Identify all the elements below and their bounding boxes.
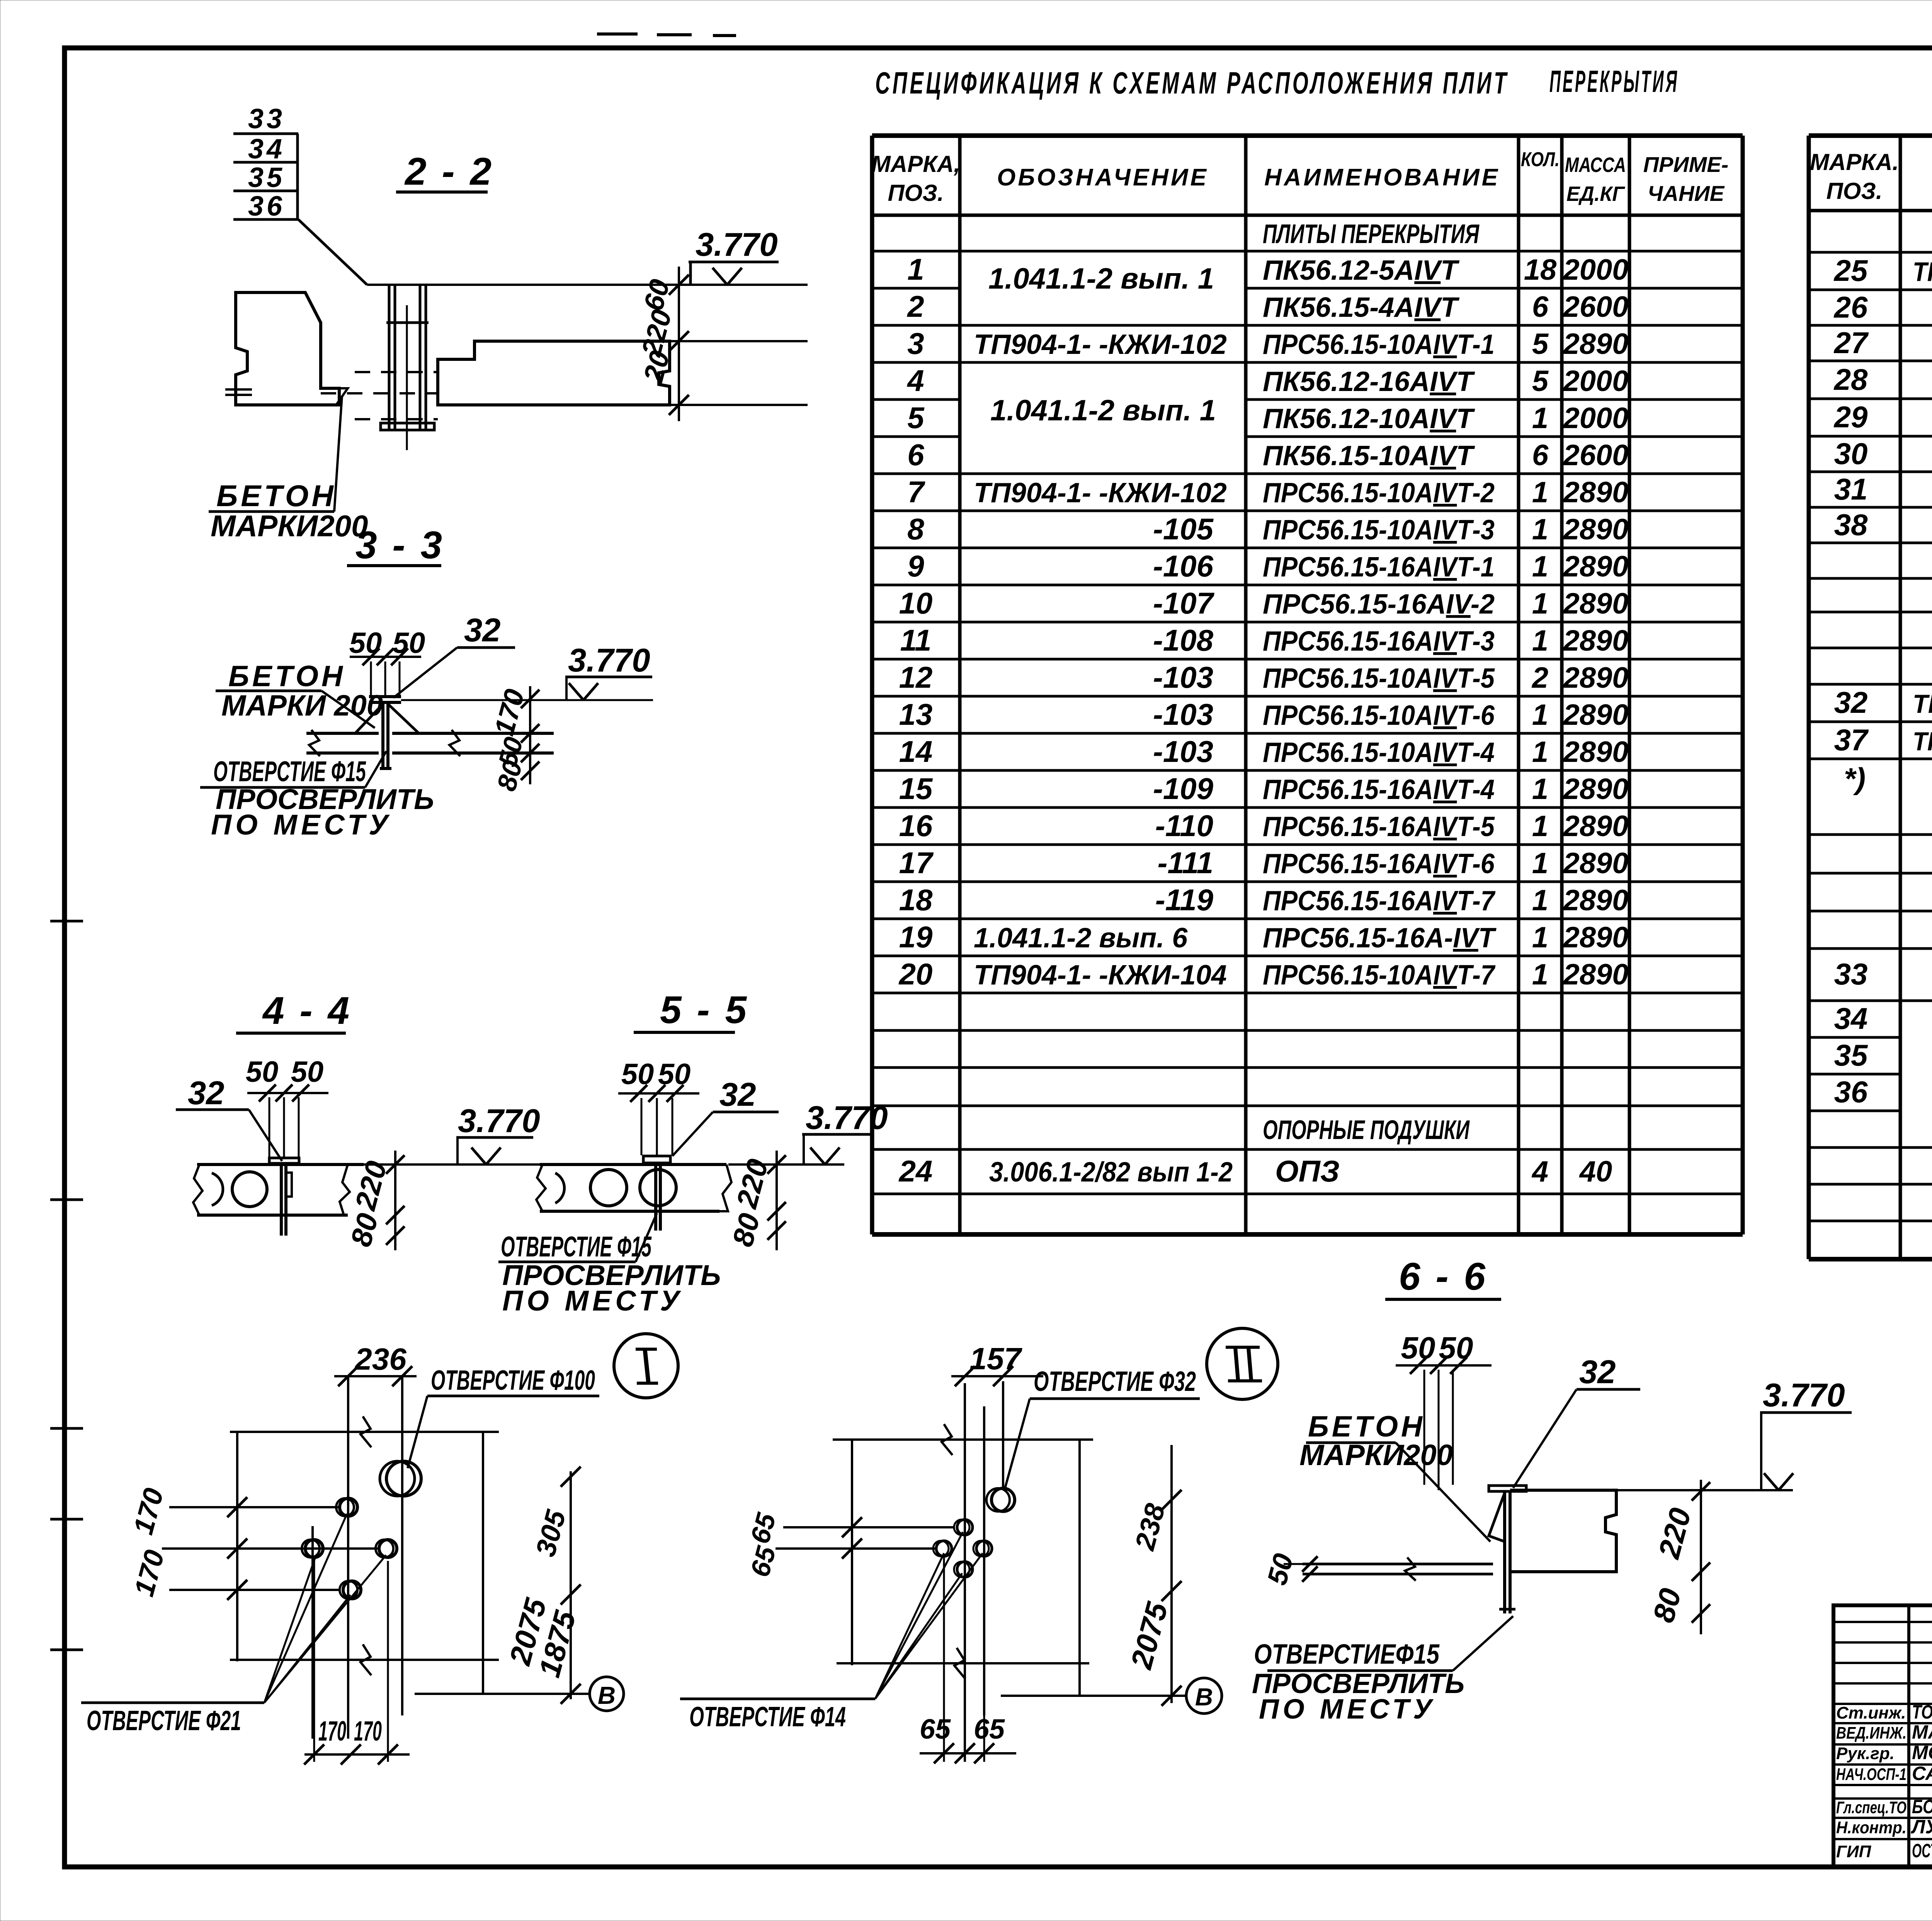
svg-text:ОПОРНЫЕ ПОДУШКИ: ОПОРНЫЕ ПОДУШКИ [1263,1115,1470,1145]
svg-text:2890: 2890 [1562,624,1628,657]
svg-text:Ст.инж.: Ст.инж. [1836,1703,1906,1722]
svg-text:25: 25 [1833,253,1868,287]
svg-text:2890: 2890 [1562,958,1628,991]
svg-text:ПК56.12-16АIVТ: ПК56.12-16АIVТ [1263,366,1475,397]
svg-text:18: 18 [1524,253,1557,286]
svg-text:НАЧ.ОСП-1: НАЧ.ОСП-1 [1836,1765,1906,1784]
svg-text:ПРС56.15-10АIVТ-2: ПРС56.15-10АIVТ-2 [1263,478,1495,508]
svg-text:6 - 6: 6 - 6 [1399,1255,1488,1298]
svg-text:35: 35 [248,162,285,193]
svg-text:3.770: 3.770 [806,1100,888,1136]
svg-text:ПРС56.15-16АIVТ-3: ПРС56.15-16АIVТ-3 [1263,626,1495,657]
svg-text:2890: 2890 [1562,699,1628,731]
svg-text:6: 6 [907,438,924,472]
svg-text:-103: -103 [1153,734,1213,768]
svg-text:-109: -109 [1153,772,1214,806]
svg-text:1: 1 [1532,958,1548,991]
svg-text:ПОЗ.: ПОЗ. [1826,178,1882,204]
svg-text:32: 32 [719,1076,756,1113]
svg-text:ПЛИТЫ ПЕРЕКРЫТИЯ: ПЛИТЫ ПЕРЕКРЫТИЯ [1263,219,1480,249]
svg-text:4: 4 [1531,1155,1548,1188]
svg-text:1: 1 [1532,736,1548,768]
svg-text:БОЯРЧЕНКО: БОЯРЧЕНКО [1912,1796,1932,1817]
svg-text:ПРС56.15-10АIVТ-6: ПРС56.15-10АIVТ-6 [1263,700,1495,731]
svg-text:ОТВЕРСТИЕ Ф15: ОТВЕРСТИЕ Ф15 [213,755,366,787]
svg-text:1: 1 [1532,921,1548,954]
svg-text:36: 36 [1834,1075,1868,1109]
svg-text:ПРС56.15-10АIVТ-5: ПРС56.15-10АIVТ-5 [1263,663,1495,694]
svg-text:3.770: 3.770 [568,642,650,679]
svg-text:1: 1 [1532,773,1548,806]
svg-text:ПРИМЕ-: ПРИМЕ- [1643,152,1729,177]
svg-text:ОТВЕРСТИЕ Ф100: ОТВЕРСТИЕ Ф100 [431,1365,595,1396]
svg-text:18: 18 [899,883,933,917]
svg-text:50: 50 [349,627,382,660]
svg-text:5: 5 [907,401,925,435]
svg-text:17: 17 [899,846,934,880]
svg-text:2890: 2890 [1562,810,1628,843]
svg-text:2890: 2890 [1562,921,1628,954]
svg-text:МАРКИ200: МАРКИ200 [1299,1439,1453,1472]
svg-text:1: 1 [1532,884,1548,917]
svg-text:ТП904-1- -КЖИ-МС1: ТП904-1- -КЖИ-МС1 [1913,689,1932,719]
svg-text:65: 65 [974,1714,1005,1745]
svg-text:35: 35 [1834,1038,1868,1072]
svg-text:2890: 2890 [1562,847,1628,880]
svg-text:33: 33 [248,104,285,134]
svg-text:В: В [598,1681,616,1709]
svg-text:15: 15 [899,772,933,806]
svg-text:2890: 2890 [1562,661,1628,694]
svg-text:34: 34 [248,134,285,165]
svg-text:7: 7 [907,475,925,509]
svg-text:ОТВЕРСТИЕ Ф21: ОТВЕРСТИЕ Ф21 [87,1705,241,1736]
svg-text:157: 157 [969,1341,1022,1376]
svg-text:ПК56.15-4АIVТ: ПК56.15-4АIVТ [1263,292,1460,323]
svg-text:ВЕД.ИНЖ.: ВЕД.ИНЖ. [1836,1724,1906,1742]
svg-text:2890: 2890 [1562,736,1628,768]
svg-text:ЕД.КГ: ЕД.КГ [1566,182,1626,206]
svg-text:32: 32 [188,1075,224,1112]
svg-text:ПРС56.15-10АIVТ-1: ПРС56.15-10АIVТ-1 [1263,329,1495,360]
svg-text:Н.контр.: Н.контр. [1836,1818,1906,1837]
svg-text:ОТВЕРСТИЕ Ф15: ОТВЕРСТИЕ Ф15 [501,1231,652,1263]
svg-text:2890: 2890 [1562,884,1628,917]
svg-text:ПРС56.15-16А-IVТ: ПРС56.15-16А-IVТ [1263,923,1497,954]
svg-text:-111: -111 [1157,846,1213,880]
svg-text:-110: -110 [1155,809,1213,843]
svg-text:2: 2 [1531,661,1548,694]
svg-text:5: 5 [1532,365,1549,398]
svg-text:ОБОЗНАЧЕНИЕ: ОБОЗНАЧЕНИЕ [997,164,1209,191]
svg-text:ГИП: ГИП [1836,1842,1872,1861]
svg-text:ПРС56.15-16АIVТ-1: ПРС56.15-16АIVТ-1 [1263,552,1495,583]
svg-text:-103: -103 [1153,660,1213,694]
svg-text:19: 19 [899,920,933,954]
svg-text:1.041.1-2 вып. 1: 1.041.1-2 вып. 1 [990,394,1216,427]
svg-text:1: 1 [1532,847,1548,880]
svg-text:СААКЬЯНЦ: СААКЬЯНЦ [1912,1763,1932,1784]
svg-text:-105: -105 [1153,512,1214,546]
svg-text:1: 1 [1532,699,1548,731]
svg-text:*): *) [1844,762,1866,796]
svg-text:3.770: 3.770 [696,226,778,263]
svg-text:ТП904-1- -КЖИ - МС19: ТП904-1- -КЖИ - МС19 [1913,727,1932,756]
svg-text:1.041.1-2 вып. 6: 1.041.1-2 вып. 6 [974,923,1188,954]
svg-text:ТП904-1- -КЖИ-104: ТП904-1- -КЖИ-104 [974,960,1227,991]
svg-text:170: 170 [354,1716,382,1747]
svg-text:6: 6 [1532,291,1549,323]
svg-text:2890: 2890 [1562,550,1628,583]
svg-text:В: В [1195,1683,1213,1711]
svg-text:31: 31 [1834,472,1868,506]
svg-text:МАССА: МАССА [1565,153,1626,177]
svg-text:29: 29 [1833,400,1868,434]
svg-text:ПЕРЕКРЫТИЯ: ПЕРЕКРЫТИЯ [1549,64,1679,99]
svg-text:МОРГУНОВ: МОРГУНОВ [1912,1742,1932,1763]
svg-text:ПРС56.15-16АIVТ-6: ПРС56.15-16АIVТ-6 [1263,848,1495,879]
svg-text:ПК56.15-10АIVТ: ПК56.15-10АIVТ [1263,440,1475,471]
svg-text:5 - 5: 5 - 5 [660,988,749,1032]
svg-text:50: 50 [621,1058,654,1091]
svg-text:ПРС56.15-16АIV-2: ПРС56.15-16АIV-2 [1263,589,1495,620]
svg-text:11: 11 [900,623,932,657]
svg-text:СПЕЦИФИКАЦИЯ К СХЕМАМ РАСПО: СПЕЦИФИКАЦИЯ К СХЕМАМ РАСПОЛОЖЕНИЯ ПЛИТ [875,66,1509,100]
svg-text:Рук.гр.: Рук.гр. [1836,1744,1895,1763]
svg-text:ОСТАШЕВСКИЙ: ОСТАШЕВСКИЙ [1912,1839,1932,1861]
svg-text:ПО МЕСТУ: ПО МЕСТУ [1259,1694,1436,1725]
svg-text:МАРКИ200: МАРКИ200 [211,509,368,543]
svg-text:4: 4 [906,364,924,398]
svg-text:МАКАРОВА: МАКАРОВА [1912,1721,1932,1743]
svg-text:13: 13 [899,697,933,731]
svg-text:-119: -119 [1155,883,1214,917]
svg-text:2600: 2600 [1562,439,1628,472]
svg-text:2890: 2890 [1562,773,1628,806]
svg-text:1: 1 [1532,402,1548,435]
svg-text:28: 28 [1833,362,1868,396]
svg-text:1: 1 [1532,550,1548,583]
svg-text:5: 5 [1532,328,1549,360]
svg-text:ПОЗ.: ПОЗ. [888,180,944,206]
svg-text:2890: 2890 [1562,476,1628,509]
svg-text:1: 1 [907,252,924,286]
svg-text:2: 2 [906,289,924,323]
svg-text:37: 37 [1834,723,1869,757]
svg-text:ЛУЩЕНКО: ЛУЩЕНКО [1911,1816,1932,1838]
svg-text:МАРКА.: МАРКА. [1810,149,1899,175]
svg-text:36: 36 [248,191,285,222]
svg-text:ПРС56.15-16АIVТ-7: ПРС56.15-16АIVТ-7 [1263,886,1496,916]
svg-text:30: 30 [1834,437,1868,471]
svg-text:2890: 2890 [1562,513,1628,546]
svg-text:3.770: 3.770 [1763,1377,1845,1414]
svg-text:32: 32 [1834,685,1868,719]
svg-text:ПО МЕСТУ: ПО МЕСТУ [211,809,392,841]
svg-text:1.041.1-2 вып. 1: 1.041.1-2 вып. 1 [988,262,1214,295]
svg-text:50: 50 [246,1056,279,1088]
svg-text:НАИМЕНОВАНИЕ: НАИМЕНОВАНИЕ [1264,164,1500,191]
svg-text:170: 170 [318,1716,346,1747]
svg-text:2000: 2000 [1562,402,1628,435]
svg-text:-108: -108 [1153,623,1214,657]
svg-text:1: 1 [1532,513,1548,546]
svg-text:ОТВЕРСТИЕФ15: ОТВЕРСТИЕФ15 [1254,1639,1440,1670]
svg-text:32: 32 [464,612,501,649]
svg-text:-106: -106 [1153,549,1214,583]
svg-text:27: 27 [1833,326,1869,360]
svg-text:ТП904-1- -КЖ лист 49: ТП904-1- -КЖ лист 49 [1913,257,1932,287]
svg-text:32: 32 [1579,1354,1616,1391]
svg-text:9: 9 [907,549,924,583]
svg-text:3.770: 3.770 [458,1103,540,1139]
svg-text:3: 3 [907,326,924,360]
svg-text:Гл.спец.ТО: Гл.спец.ТО [1836,1798,1906,1817]
svg-text:ТП904-1- -КЖИ-102: ТП904-1- -КЖИ-102 [974,329,1227,360]
svg-text:БЕТОН: БЕТОН [1308,1410,1425,1443]
svg-text:1: 1 [1532,476,1548,509]
svg-text:33: 33 [1834,957,1868,991]
svg-text:2000: 2000 [1562,365,1628,398]
svg-text:10: 10 [899,586,933,620]
svg-text:16: 16 [899,809,933,843]
svg-text:1: 1 [1532,587,1548,620]
svg-text:3.006.1-2/82 вып 1-2: 3.006.1-2/82 вып 1-2 [989,1157,1233,1188]
svg-text:ПРС56.15-10АIVТ-4: ПРС56.15-10АIVТ-4 [1263,737,1495,768]
svg-text:1: 1 [1532,624,1548,657]
svg-text:6: 6 [1532,439,1549,472]
svg-text:ТОЛМАЧЕВА: ТОЛМАЧЕВА [1912,1701,1932,1723]
svg-text:ОТВЕРСТИЕ Ф32: ОТВЕРСТИЕ Ф32 [1034,1366,1196,1397]
svg-text:4 - 4: 4 - 4 [262,989,352,1032]
svg-text:1: 1 [1532,810,1548,843]
svg-text:ПРС56.15-16АIVТ-5: ПРС56.15-16АIVТ-5 [1263,811,1495,842]
svg-text:2 - 2: 2 - 2 [404,150,494,193]
svg-text:50: 50 [291,1056,324,1088]
svg-text:2000: 2000 [1562,253,1628,286]
svg-text:34: 34 [1834,1001,1868,1035]
svg-text:24: 24 [898,1154,933,1188]
svg-text:2600: 2600 [1562,291,1628,323]
svg-text:ПРС56.15-16АIVТ-4: ПРС56.15-16АIVТ-4 [1263,774,1495,805]
svg-text:ОТВЕРСТИЕ Ф14: ОТВЕРСТИЕ Ф14 [689,1702,846,1732]
svg-text:КОЛ.: КОЛ. [1521,148,1560,171]
svg-text:БЕТОН: БЕТОН [216,479,337,513]
svg-text:2890: 2890 [1562,328,1628,360]
svg-text:50: 50 [393,627,425,660]
svg-text:2890: 2890 [1562,587,1628,620]
svg-text:14: 14 [899,734,933,768]
svg-text:12: 12 [899,660,933,694]
svg-text:ПК56.12-5АIVТ: ПК56.12-5АIVТ [1263,255,1460,286]
svg-text:ТП904-1- -КЖИ-102: ТП904-1- -КЖИ-102 [974,478,1227,508]
svg-text:ПРС56.15-10АIVТ-7: ПРС56.15-10АIVТ-7 [1263,960,1496,991]
svg-text:-107: -107 [1153,586,1215,620]
svg-text:-103: -103 [1153,697,1213,731]
svg-text:ЧАНИЕ: ЧАНИЕ [1648,181,1725,206]
svg-text:20: 20 [898,957,933,991]
svg-text:БЕТОН: БЕТОН [228,660,346,693]
svg-text:40: 40 [1579,1155,1612,1188]
svg-text:38: 38 [1834,508,1868,542]
svg-text:3 - 3: 3 - 3 [355,524,444,567]
svg-text:8: 8 [907,512,924,546]
svg-text:ОПЗ: ОПЗ [1275,1154,1340,1188]
svg-text:26: 26 [1833,290,1868,324]
svg-text:ПК56.12-10АIVТ: ПК56.12-10АIVТ [1263,403,1475,434]
svg-text:236: 236 [354,1342,406,1376]
svg-text:ПО МЕСТУ: ПО МЕСТУ [502,1285,683,1317]
svg-text:ПРС56.15-10АIVТ-3: ПРС56.15-10АIVТ-3 [1263,515,1495,546]
svg-text:МАРКА,: МАРКА, [871,151,960,177]
svg-text:65: 65 [920,1714,951,1745]
svg-text:50: 50 [1401,1331,1435,1365]
